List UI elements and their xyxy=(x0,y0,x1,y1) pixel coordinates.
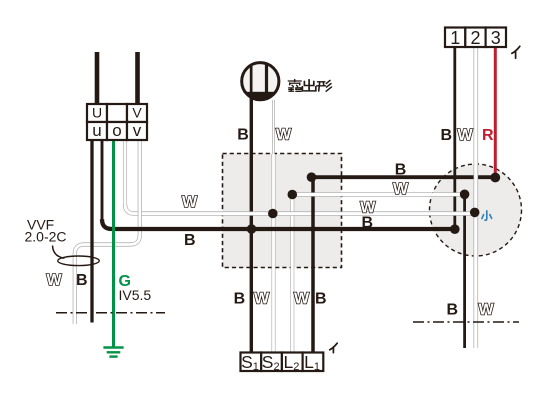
kanji 出 xyxy=(308,80,310,91)
svg-text:B: B xyxy=(362,214,374,231)
svg-text:3: 3 xyxy=(491,28,501,48)
svg-text:W: W xyxy=(254,291,270,308)
wire: source V feed (top right vertical black) xyxy=(135,52,140,104)
wire: switched-live B bus (L1 junction to red junction A) xyxy=(312,175,496,179)
svg-text:B: B xyxy=(315,291,327,308)
svg-text:B: B xyxy=(76,272,88,289)
wire: L2 white vertical (junction to L2 terminal) xyxy=(290,195,294,354)
wire: live B bus (u cell bend then horizontal to junction D) xyxy=(101,140,104,220)
wire: VVF black conductor (u cell straight down bottom left) xyxy=(90,140,93,323)
svg-text:B: B xyxy=(237,126,249,143)
wire: L1 black vertical (junction to L1 terminal) xyxy=(311,177,315,353)
junction dot: L2 top xyxy=(288,190,298,200)
junction dot B: white link x down black xyxy=(460,190,470,200)
svg-text:v: v xyxy=(133,121,142,140)
lamp receptacle (exposed type) xyxy=(241,60,280,102)
svg-text:W: W xyxy=(294,291,310,308)
junction dot: L1 top xyxy=(307,172,317,182)
svg-text:u: u xyxy=(92,121,101,140)
junction dot D: B bus x terminal1 black xyxy=(450,224,460,234)
svg-text:o: o xyxy=(112,121,121,140)
ground xyxy=(103,348,123,357)
boundary chain line (right) xyxy=(413,321,519,323)
automatic switch terminal box 1 2 3 xyxy=(445,28,506,48)
junction dot C: W bus x terminal2 white xyxy=(470,208,480,218)
label イ (circuit name, bottom, drawn as paths) xyxy=(330,343,338,352)
cable marker ellipse (VVF 2.0-2C) xyxy=(58,256,100,266)
svg-text:B: B xyxy=(447,302,459,319)
wire: neutral W bus (v cell bend then horizontal to circle) xyxy=(123,140,126,205)
svg-text:B: B xyxy=(184,232,196,249)
junction dot: S2 x W bus xyxy=(268,209,278,219)
svg-text:W: W xyxy=(182,194,198,211)
svg-text:R: R xyxy=(482,127,494,144)
svg-text:2.0-2C: 2.0-2C xyxy=(25,229,67,245)
wire: source U feed (top left vertical black) xyxy=(95,52,100,104)
junction box (dashed square, switch box) xyxy=(223,154,342,268)
wire: lamp-small black vertical (junction B down to bottom right B) xyxy=(463,194,466,348)
wire: lamp black S1 vertical (lamp to S1 terminal) xyxy=(250,98,253,353)
svg-text:B: B xyxy=(395,162,407,179)
svg-text:1: 1 xyxy=(450,28,460,48)
wire: lamp white S2 vertical (lamp to S2 terminal) xyxy=(272,100,275,154)
label イ (circuit name, top right, drawn as paths) xyxy=(512,46,520,58)
kanji 形 xyxy=(318,81,325,83)
svg-text:W: W xyxy=(276,127,292,144)
svg-text:W: W xyxy=(393,181,409,198)
svg-text:W: W xyxy=(47,272,63,289)
svg-text:IV5.5: IV5.5 xyxy=(119,287,152,303)
wire: terminal 2 white vertical (123-box through circle to bottom) xyxy=(473,47,478,348)
svg-text:B: B xyxy=(234,291,246,308)
kanji 露 xyxy=(288,80,301,82)
svg-text:W: W xyxy=(458,127,474,144)
svg-text:U: U xyxy=(92,104,102,120)
wire: terminal 1 black vertical (123-box to junction D) xyxy=(453,47,456,229)
label 小 (blue, drawn as paths) xyxy=(482,211,492,220)
wire: terminal 3 red vertical xyxy=(494,47,497,177)
wire: white link (L2 junction to junction B) xyxy=(292,192,464,196)
junction dot: S1 x B bus xyxy=(247,224,257,234)
svg-text:W: W xyxy=(479,302,495,319)
label 露出形 (drawn as paths) xyxy=(288,80,331,92)
boundary chain line (left) xyxy=(56,312,165,314)
svg-text:B: B xyxy=(441,127,453,144)
time switch terminal box S1 S2 L2 L1 xyxy=(241,353,324,372)
wire: green earth IV5.5 vertical xyxy=(112,140,115,348)
wire: VVF white conductor (S-curve from v cell down to bottom left) xyxy=(75,140,140,324)
source terminal box U/V u/o/v xyxy=(87,104,147,140)
junction dot A: red x switched bus xyxy=(490,173,500,183)
outlet box (dashed circle) xyxy=(430,164,522,256)
callout arrow from VVF text xyxy=(53,246,65,259)
svg-text:V: V xyxy=(132,104,142,120)
svg-text:2: 2 xyxy=(470,28,480,48)
